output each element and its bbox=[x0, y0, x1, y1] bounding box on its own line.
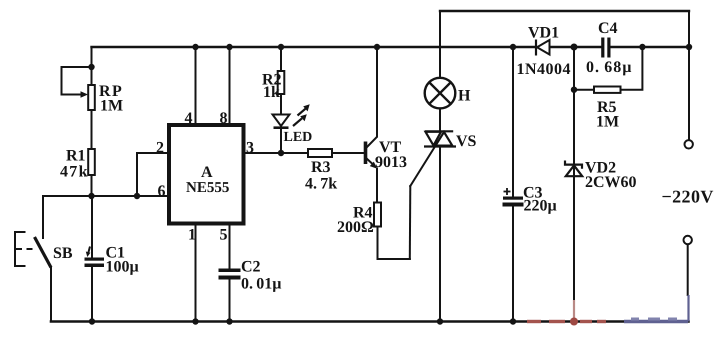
svg-text:220µ: 220µ bbox=[524, 198, 557, 215]
svg-text:0. 01µ: 0. 01µ bbox=[241, 276, 281, 293]
node C2 bottom bbox=[226, 318, 232, 324]
wire VD2 to bottom rail bbox=[573, 177, 575, 322]
wire C3 bottom bbox=[512, 207, 514, 322]
node C3 rail bbox=[510, 44, 516, 50]
svg-text:1N4004: 1N4004 bbox=[517, 61, 572, 78]
node C4 right bbox=[639, 44, 645, 50]
wire emitter to R4 bbox=[376, 169, 378, 203]
svg-text:2CW60: 2CW60 bbox=[585, 174, 637, 191]
zener diode VD2 bbox=[565, 161, 582, 177]
transistor Q1 VT base bar bbox=[364, 142, 368, 165]
svg-text:200Ω: 200Ω bbox=[337, 219, 374, 236]
wire pin1 bbox=[195, 224, 197, 322]
svg-text:VS: VS bbox=[456, 133, 477, 150]
wire pin4 bbox=[195, 47, 197, 125]
svg-text:5: 5 bbox=[220, 227, 228, 244]
svg-text:6: 6 bbox=[158, 183, 166, 200]
svg-text:SB: SB bbox=[53, 245, 73, 262]
wire top rail bbox=[440, 10, 689, 12]
svg-text:100µ: 100µ bbox=[106, 259, 139, 276]
wire pin5 to C2 bbox=[229, 224, 231, 269]
resistor R3 bbox=[308, 149, 332, 157]
node collector rail bbox=[374, 44, 380, 50]
switch SB blade bbox=[35, 237, 52, 268]
op-amp U1 NE555 body bbox=[169, 125, 244, 224]
svg-text:4: 4 bbox=[185, 110, 193, 127]
wire pin3 row bbox=[244, 152, 309, 154]
capacitor C4 bbox=[601, 38, 610, 58]
wire triac to bottom rail bbox=[439, 147, 441, 322]
terminal upper bbox=[685, 140, 693, 148]
wire lamp column top bbox=[439, 11, 441, 78]
node R5 left bbox=[571, 87, 577, 93]
wire R5 node to VD2 bbox=[573, 90, 575, 177]
resistor R1 bbox=[88, 149, 95, 175]
triac VS bbox=[424, 131, 456, 146]
capacitor C3 bbox=[503, 197, 524, 207]
wire R5 left stub bbox=[574, 89, 594, 91]
svg-text:1M: 1M bbox=[596, 114, 619, 131]
node R1 C1 junction bbox=[88, 193, 94, 199]
wire bottom terminal drop bbox=[687, 244, 689, 295]
node C3 bottom bbox=[510, 318, 516, 324]
wire gate riser bbox=[409, 186, 412, 259]
svg-text:1M: 1M bbox=[100, 98, 123, 115]
svg-text:9013: 9013 bbox=[375, 154, 407, 171]
wire R4 bottom run bbox=[378, 227, 410, 260]
svg-text:C4: C4 bbox=[598, 20, 618, 37]
svg-text:H: H bbox=[458, 88, 471, 105]
svg-text:1: 1 bbox=[188, 227, 196, 244]
wire R2 to LED bbox=[280, 94, 282, 115]
wire SB bottom bbox=[50, 267, 52, 322]
node pin4 rail bbox=[192, 44, 198, 50]
terminal lower bbox=[684, 236, 692, 244]
capacitor C1 polarity mark bbox=[88, 247, 90, 255]
wire LED to pin3 row bbox=[280, 129, 282, 154]
node R2 rail bbox=[278, 44, 284, 50]
node pin1 bottom bbox=[192, 318, 198, 324]
diode VD1 bbox=[536, 40, 550, 56]
wire R2 top bbox=[280, 47, 282, 71]
node pin3 LED junction bbox=[278, 150, 284, 156]
wire second rail VD1 to C4 bbox=[550, 46, 602, 48]
wire C1 bottom bbox=[91, 267, 93, 322]
wire RP to R1 bbox=[91, 110, 93, 149]
svg-text:A: A bbox=[201, 164, 213, 181]
wire gate diagonal bbox=[410, 143, 437, 187]
wire R1 to node bbox=[91, 175, 93, 196]
node C1 bottom bbox=[89, 318, 95, 324]
wire C3 top bbox=[512, 47, 514, 197]
node pin8 rail bbox=[226, 44, 232, 50]
capacitor C2 bbox=[219, 269, 241, 280]
svg-text:LED: LED bbox=[284, 130, 313, 145]
svg-text:4. 7k: 4. 7k bbox=[305, 176, 337, 193]
wire second rail right of C4 bbox=[611, 46, 690, 48]
wire R3 to base bbox=[332, 152, 364, 154]
wire C2 bottom bbox=[229, 280, 231, 322]
node VD2 bottom red bbox=[570, 318, 578, 326]
node VD1 anode bbox=[571, 44, 578, 51]
potentiometer RP wiper arrowhead bbox=[81, 91, 89, 98]
resistor R4 bbox=[374, 203, 381, 227]
svg-text:VD1: VD1 bbox=[528, 25, 559, 42]
lamp H bbox=[425, 78, 456, 109]
wire pin8 bbox=[229, 47, 231, 125]
svg-text:47k: 47k bbox=[60, 164, 89, 181]
svg-text:3: 3 bbox=[246, 140, 254, 157]
svg-text:C2: C2 bbox=[241, 259, 261, 276]
wire second rail left section bbox=[92, 46, 537, 48]
node RP wiper junction bbox=[88, 64, 94, 70]
svg-text:−220V: −220V bbox=[662, 187, 714, 207]
node triac bottom bbox=[437, 318, 443, 324]
potentiometer RP bbox=[62, 67, 95, 110]
svg-text:0. 68µ: 0. 68µ bbox=[586, 59, 632, 76]
watermark blue text band bbox=[624, 295, 689, 322]
svg-text:R3: R3 bbox=[311, 159, 331, 176]
resistor R2 bbox=[278, 71, 285, 94]
wire pin6 row bbox=[43, 195, 169, 197]
wire bottom rail bbox=[51, 320, 689, 323]
wire collector bbox=[376, 47, 378, 137]
svg-text:NE555: NE555 bbox=[186, 180, 229, 196]
wire C1 top bbox=[91, 196, 93, 258]
transistor Q1 VT collector bbox=[366, 137, 378, 149]
LED D1 bbox=[273, 115, 290, 128]
node right column rail bbox=[686, 44, 692, 50]
wire right column bbox=[688, 11, 690, 140]
transistor Q1 VT emitter bbox=[366, 158, 373, 164]
capacitor C3 plus sign bbox=[504, 188, 511, 195]
svg-text:2: 2 bbox=[156, 140, 164, 157]
wire RP top terminal bbox=[91, 47, 93, 85]
svg-text:8: 8 bbox=[220, 110, 228, 127]
LED light ray arrows bbox=[293, 109, 306, 126]
wire pin2 to pin6 connector bbox=[136, 153, 138, 196]
wire VD1 node to R5 node bbox=[573, 47, 575, 90]
svg-text:R1: R1 bbox=[66, 148, 86, 165]
wire SB top bbox=[42, 196, 44, 238]
wire pin2 stub bbox=[137, 152, 169, 154]
node pin2 connector junction bbox=[134, 193, 140, 199]
resistor R5 bbox=[594, 87, 621, 93]
watermark red dashes on bottom rail bbox=[527, 300, 606, 322]
capacitor C1 bbox=[85, 258, 105, 268]
switch SB actuator bracket bbox=[15, 232, 36, 266]
wire lamp to triac bbox=[439, 108, 441, 131]
wire R5 right run bbox=[621, 47, 643, 90]
svg-text:1k: 1k bbox=[263, 84, 280, 101]
